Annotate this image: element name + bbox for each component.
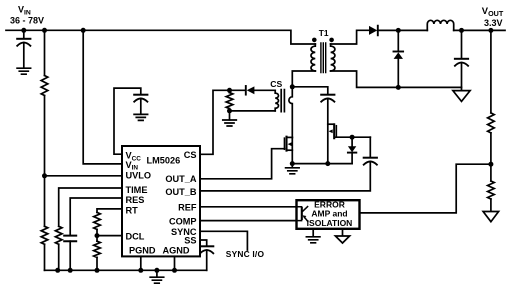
svg-text:UVLO: UVLO <box>126 170 152 180</box>
svg-text:LM5026: LM5026 <box>147 155 181 165</box>
svg-text:T1: T1 <box>319 28 329 38</box>
svg-text:REF: REF <box>178 203 197 213</box>
svg-text:COMP: COMP <box>169 216 197 226</box>
svg-text:SYNC I/O: SYNC I/O <box>226 249 265 259</box>
svg-text:3.3V: 3.3V <box>484 18 503 28</box>
svg-text:DCL: DCL <box>126 231 145 241</box>
svg-text:ISOLATION: ISOLATION <box>307 218 353 228</box>
svg-text:PGND: PGND <box>129 246 156 256</box>
svg-text:AGND: AGND <box>162 246 189 256</box>
svg-text:CS: CS <box>270 79 282 89</box>
svg-text:OUT_B: OUT_B <box>165 187 197 197</box>
svg-text:OUT_A: OUT_A <box>165 174 197 184</box>
svg-text:RES: RES <box>126 195 145 205</box>
svg-text:SS: SS <box>184 236 196 246</box>
svg-text:TIME: TIME <box>126 185 148 195</box>
svg-text:CS: CS <box>184 150 197 160</box>
svg-text:RT: RT <box>126 205 139 215</box>
svg-text:36 - 78V: 36 - 78V <box>10 16 44 26</box>
